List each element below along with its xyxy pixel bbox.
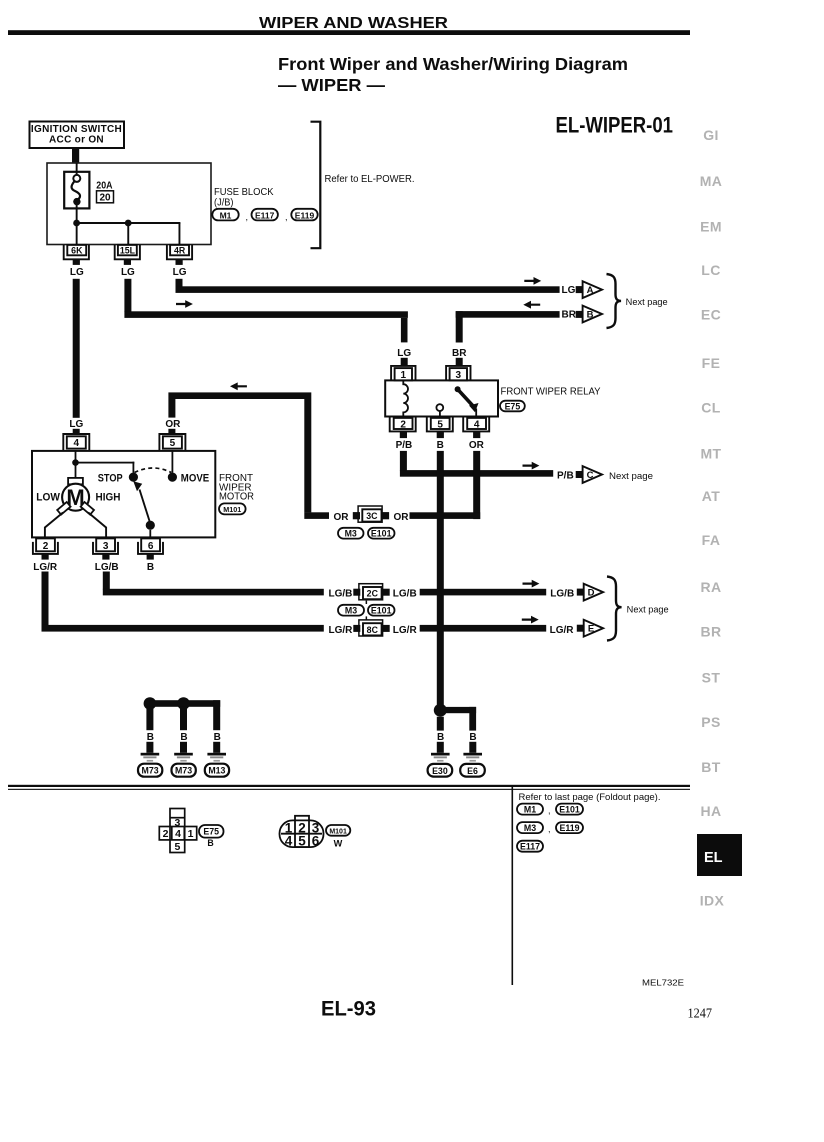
svg-text:LG/R: LG/R <box>393 625 418 636</box>
ground oval M13 <box>205 764 229 777</box>
wire node to stop contact <box>76 462 135 464</box>
wire node to 6K <box>76 226 78 245</box>
ground stub 2 <box>180 742 187 753</box>
ground bus horizontal right <box>440 707 476 713</box>
legend oval E119 <box>556 822 583 833</box>
relay pin5 contact circle <box>436 404 443 411</box>
motor M101 body box <box>32 451 215 538</box>
switch pivot dot <box>146 521 155 530</box>
svg-text:EL-WIPER-01: EL-WIPER-01 <box>556 113 674 138</box>
relay pin 1 connector <box>391 366 415 381</box>
stub 15L <box>124 259 131 265</box>
ground stub 3 <box>213 742 220 753</box>
motor pin 4 connector <box>63 434 89 451</box>
svg-text:FRONT WIPER RELAY: FRONT WIPER RELAY <box>501 386 601 398</box>
square right of 3C <box>382 512 389 519</box>
stub above motor pin5 <box>168 429 175 434</box>
triangle C next page <box>583 466 602 483</box>
svg-text:Refer to EL-POWER.: Refer to EL-POWER. <box>325 174 415 185</box>
square at A <box>576 286 583 293</box>
junction connector 3C <box>358 506 382 522</box>
motor pin 2 connector <box>36 538 55 551</box>
wire LG/R horizontal left <box>42 625 324 632</box>
svg-text:OR: OR <box>469 440 485 451</box>
svg-text:LC: LC <box>701 262 720 278</box>
svg-text:3: 3 <box>174 817 180 829</box>
footer separator line 2 <box>8 789 690 790</box>
wire LG 15L vertical <box>124 279 131 312</box>
fuse number 20 box <box>97 191 114 203</box>
svg-text:MEL732E: MEL732E <box>642 979 684 988</box>
svg-text:2C: 2C <box>367 589 379 599</box>
ground drop E30 <box>437 717 444 731</box>
stub below pin4 <box>473 431 480 438</box>
svg-text:4: 4 <box>175 828 181 840</box>
svg-text:GI: GI <box>703 127 719 143</box>
ground stub E30 <box>437 742 444 753</box>
svg-text:MOVE: MOVE <box>181 473 209 485</box>
svg-text:BR: BR <box>700 624 721 640</box>
wire LG down to relay pin1 <box>401 318 408 343</box>
svg-text:B: B <box>437 732 444 743</box>
stub 4R <box>176 259 183 265</box>
triangle D next page <box>584 584 603 601</box>
svg-text:EC: EC <box>701 307 721 323</box>
legend oval E101 <box>556 804 583 815</box>
square at E <box>577 625 584 632</box>
svg-text:E117: E117 <box>520 842 540 852</box>
svg-text:MOTOR: MOTOR <box>219 491 254 503</box>
section tab EL highlighted box <box>697 834 742 876</box>
svg-text:A: A <box>587 285 594 296</box>
svg-text:M3: M3 <box>345 529 357 539</box>
svg-text:LG: LG <box>70 267 84 278</box>
ground drop 1 <box>146 707 153 730</box>
svg-text:FE: FE <box>702 355 721 371</box>
wire LG/B horizontal right <box>420 589 547 596</box>
relay pin 5 connector <box>427 417 453 432</box>
svg-text:B: B <box>147 732 154 743</box>
fuse element symbol <box>73 175 80 182</box>
svg-text:LG/R: LG/R <box>329 625 354 636</box>
svg-text:6K: 6K <box>71 246 83 256</box>
legend oval E117 <box>517 841 543 852</box>
svg-text:3C: 3C <box>366 511 378 521</box>
dashed link 2C to 8C <box>366 601 368 604</box>
svg-text:,: , <box>548 806 551 816</box>
ground stub E6 <box>469 742 476 753</box>
wire bus to 4R <box>179 223 181 245</box>
svg-text:Next page: Next page <box>609 471 653 481</box>
wire OR junction vertical <box>304 399 311 512</box>
footer vertical divider <box>512 787 514 985</box>
footer separator line 1 <box>8 785 690 787</box>
svg-text:LG/B: LG/B <box>550 589 574 600</box>
earth symbol M73a <box>141 753 160 756</box>
svg-text:,: , <box>285 212 288 222</box>
relay pin 2 connector <box>390 417 416 432</box>
motor connector oval M101 <box>219 503 246 514</box>
svg-text:E101: E101 <box>371 529 392 539</box>
legend oval M3 <box>517 822 543 833</box>
bus wire inside fuse block <box>77 222 181 224</box>
ground node dot 2 <box>177 697 190 710</box>
svg-text:P/B: P/B <box>396 440 413 451</box>
ground oval E30 <box>428 764 453 777</box>
relay switch arm <box>455 386 461 392</box>
svg-text:20: 20 <box>99 193 111 204</box>
wire high brush to pin3 <box>88 513 106 538</box>
relay coil <box>403 380 408 416</box>
relay connector oval E75 <box>500 401 525 412</box>
refer bracket <box>311 122 321 249</box>
wire LG 4R vertical <box>176 279 183 289</box>
node dot inside motor <box>72 459 79 466</box>
wire fuse to node <box>76 205 78 220</box>
square right of 8C <box>383 625 390 632</box>
svg-text:LG/R: LG/R <box>33 562 58 573</box>
ground bus corner vertical <box>213 700 220 730</box>
svg-text:OR: OR <box>165 419 181 430</box>
svg-text:4: 4 <box>285 833 293 848</box>
wire node to 15L <box>127 226 129 245</box>
svg-text:E101: E101 <box>371 606 392 616</box>
triangle E next page <box>584 620 603 637</box>
3C junction stub left <box>304 512 329 519</box>
stub below pin2 <box>400 431 407 438</box>
svg-text:B: B <box>214 732 221 743</box>
stub below pin3 <box>102 554 109 560</box>
svg-text:1247: 1247 <box>688 1006 713 1021</box>
svg-text:2: 2 <box>163 828 169 840</box>
stub above motor pin4 <box>73 429 80 434</box>
MOVE contact dot <box>168 473 177 482</box>
svg-text:D: D <box>588 588 595 599</box>
ground node dot B motor <box>144 697 157 710</box>
ground bus horizontal left <box>150 700 220 707</box>
svg-text:OR: OR <box>334 512 350 523</box>
svg-text:LOW: LOW <box>36 492 60 504</box>
svg-text:HA: HA <box>700 803 721 819</box>
svg-text:B: B <box>587 309 594 320</box>
wire B relay pin5 down to ground <box>437 451 444 707</box>
earth symbol M13 <box>207 753 226 756</box>
svg-text:BT: BT <box>701 759 721 775</box>
svg-text:E30: E30 <box>432 766 448 776</box>
svg-text:E117: E117 <box>255 211 275 221</box>
triangle A next page <box>583 281 602 298</box>
earth symbol M73b <box>174 753 193 756</box>
svg-text:EL-93: EL-93 <box>321 998 376 1021</box>
stub below pin2 <box>42 554 49 560</box>
svg-text:,: , <box>548 824 551 834</box>
svg-text:MA: MA <box>700 173 723 189</box>
dashed throw arc <box>135 468 172 473</box>
svg-text:3: 3 <box>103 541 109 552</box>
ignition switch box <box>30 122 125 149</box>
svg-text:LG/R: LG/R <box>550 625 575 636</box>
svg-text:EM: EM <box>700 219 722 235</box>
square at D <box>577 589 584 596</box>
ovals M3 E101 between 2C 8C <box>338 605 364 616</box>
wire P/B vertical <box>400 451 407 471</box>
square right of 2C <box>383 589 390 596</box>
stub below pin6 <box>147 554 154 560</box>
svg-text:E119: E119 <box>295 211 315 221</box>
ground corner vertical right <box>469 707 476 731</box>
svg-text:OR: OR <box>394 512 410 523</box>
wire into fuse <box>76 163 78 176</box>
junction connector 8C <box>359 620 383 636</box>
relay E75 body <box>385 380 498 416</box>
svg-text:5: 5 <box>174 841 180 853</box>
wire BR horizontal to page B <box>456 311 560 318</box>
wire LG/R horizontal right <box>420 625 547 632</box>
connector 6K <box>64 245 89 259</box>
arrow right on LG A line <box>524 277 541 285</box>
svg-text:P/B: P/B <box>557 471 574 482</box>
square at C <box>576 471 583 478</box>
wire LG 15L horizontal to relay <box>124 311 408 318</box>
switch arm with arrowhead <box>140 490 150 522</box>
stub above pin3 <box>456 358 463 366</box>
stub 6K <box>73 259 80 265</box>
square at B <box>576 311 583 318</box>
svg-text:LG: LG <box>69 419 83 430</box>
svg-text:M1: M1 <box>220 211 232 221</box>
arrow right on LG relay line <box>176 300 193 308</box>
STOP contact dot <box>129 473 138 482</box>
wire ignition to fuse block <box>72 148 79 164</box>
svg-text:IDX: IDX <box>700 893 725 909</box>
stub below pin5 <box>437 431 444 438</box>
arrow left on BR B line <box>523 301 540 309</box>
svg-text:1: 1 <box>401 370 407 381</box>
svg-text:HIGH: HIGH <box>96 492 121 504</box>
earth symbol E30 <box>431 753 450 756</box>
fuse F20 box <box>64 172 89 209</box>
stub above pin1 <box>401 358 408 366</box>
svg-text:E: E <box>588 624 594 635</box>
connector 4R <box>167 245 192 259</box>
wire OR motor pin5 horizontal <box>168 392 311 399</box>
svg-text:RA: RA <box>700 579 721 595</box>
ground oval E6 <box>460 764 485 777</box>
svg-text:MT: MT <box>700 446 721 462</box>
square left of 8C <box>353 625 360 632</box>
oval E101 below 3C <box>368 528 395 539</box>
svg-text:M73: M73 <box>142 766 159 776</box>
svg-text:IGNITION SWITCH: IGNITION SWITCH <box>31 124 122 135</box>
motor pin 5 connector <box>159 434 185 451</box>
svg-text:Next page: Next page <box>627 605 669 615</box>
svg-text:LG: LG <box>562 285 576 296</box>
svg-text:ACC or ON: ACC or ON <box>49 135 104 146</box>
M101 face oval label <box>326 825 350 836</box>
svg-text:B: B <box>147 562 154 573</box>
svg-text:PS: PS <box>701 714 720 730</box>
svg-text:3: 3 <box>456 370 462 381</box>
junction connector 2C <box>359 584 383 600</box>
node dot middle <box>125 220 132 227</box>
wire MOVE to pin5 <box>172 451 174 473</box>
svg-text:BR: BR <box>562 310 577 321</box>
E75 relay connector face <box>159 809 196 853</box>
svg-text:B: B <box>207 838 213 848</box>
wire node to motor <box>75 463 77 478</box>
wire LG 4R horizontal to page A <box>176 286 560 293</box>
svg-text:4R: 4R <box>174 246 186 256</box>
ground node dot B relay <box>434 704 447 717</box>
svg-text:Refer to last page (Foldout pa: Refer to last page (Foldout page). <box>519 792 661 802</box>
svg-text:LG: LG <box>121 267 135 278</box>
svg-text:M3: M3 <box>524 823 536 833</box>
svg-text:M1: M1 <box>524 804 536 814</box>
wire low brush to pin2 <box>45 513 63 538</box>
svg-text:LG/B: LG/B <box>393 589 417 600</box>
svg-text:LG: LG <box>397 348 411 359</box>
svg-text:C: C <box>587 470 594 481</box>
wire LG/B vertical <box>103 572 110 590</box>
svg-text:B: B <box>437 440 444 451</box>
wire P/B horizontal to page C <box>400 470 553 477</box>
svg-text:BR: BR <box>452 348 467 359</box>
svg-text:— WIPER —: — WIPER — <box>278 75 386 95</box>
connector oval M1 <box>212 209 317 221</box>
svg-text:8C: 8C <box>367 625 379 635</box>
square left of 3C <box>353 512 360 519</box>
wire LG/B horizontal left <box>103 589 324 596</box>
node dot left <box>73 220 80 227</box>
svg-text:B: B <box>469 732 476 743</box>
fuse block box <box>47 163 211 245</box>
wire LG/R vertical <box>42 572 49 626</box>
E75 face oval label <box>199 825 224 838</box>
svg-text:6: 6 <box>148 541 154 552</box>
svg-text:ST: ST <box>702 670 721 686</box>
ground oval M73a <box>138 764 162 777</box>
svg-text:LG/B: LG/B <box>329 589 353 600</box>
svg-text:4: 4 <box>474 419 480 430</box>
svg-text:4: 4 <box>74 438 80 449</box>
svg-text:2: 2 <box>43 541 49 552</box>
motor pin 6 connector <box>141 538 160 551</box>
svg-text:E6: E6 <box>467 766 478 776</box>
svg-text:20A: 20A <box>96 179 113 191</box>
svg-text:5: 5 <box>170 438 176 449</box>
wire pivot to pin6 <box>149 530 151 538</box>
arrow right on LG/R line <box>522 616 539 624</box>
wire BR relay pin3 vertical <box>456 311 463 342</box>
svg-text:WIPER AND WASHER: WIPER AND WASHER <box>259 15 448 32</box>
brace next page A B <box>607 274 622 328</box>
svg-text:B: B <box>180 732 187 743</box>
legend oval M1 <box>517 804 543 815</box>
oval M3 below 3C <box>338 528 364 539</box>
wire OR vertical above pin5 <box>168 399 175 418</box>
arrow right on LG/B line <box>523 580 540 588</box>
svg-text:E101: E101 <box>559 804 580 814</box>
connector 15L <box>115 245 140 259</box>
svg-text:M73: M73 <box>175 766 192 776</box>
svg-text:15L: 15L <box>120 246 136 256</box>
square left of 2C <box>353 589 360 596</box>
relay pin 4 connector <box>463 417 489 432</box>
svg-text:6: 6 <box>312 833 320 848</box>
svg-text:LG/B: LG/B <box>95 562 119 573</box>
svg-text:E75: E75 <box>203 827 219 837</box>
arrow right on P/B line <box>523 462 540 470</box>
svg-text:E119: E119 <box>559 823 579 833</box>
arrow left on OR line <box>230 382 247 390</box>
relay pin 3 connector <box>446 366 470 381</box>
brace next page D E <box>607 577 622 641</box>
svg-text:5: 5 <box>298 833 306 848</box>
svg-text:(J/B): (J/B) <box>214 197 234 209</box>
svg-text:M13: M13 <box>208 766 225 776</box>
wire OR relay pin4 down <box>473 451 480 519</box>
svg-text:Front Wiper and Washer/Wiring: Front Wiper and Washer/Wiring Diagram <box>278 54 628 74</box>
motor armature symbol <box>68 478 83 484</box>
svg-text:LG: LG <box>173 267 187 278</box>
wire pin4 to node <box>75 451 77 462</box>
svg-text:CL: CL <box>701 400 721 416</box>
wire LG 6K to motor pin4 <box>73 279 80 418</box>
svg-text:Next page: Next page <box>626 297 668 307</box>
M101 motor connector face <box>280 816 324 847</box>
svg-text:1: 1 <box>188 828 194 840</box>
svg-text:,: , <box>246 212 249 222</box>
ground drop 2 <box>180 707 187 730</box>
svg-text:W: W <box>334 839 343 849</box>
svg-text:5: 5 <box>437 419 443 430</box>
ground stub 1 <box>146 742 153 753</box>
svg-text:2: 2 <box>400 419 406 430</box>
svg-text:STOP: STOP <box>98 473 123 485</box>
3C junction wire to relay pin4 <box>410 512 481 519</box>
svg-text:M3: M3 <box>345 606 357 616</box>
header rule <box>8 30 690 35</box>
svg-text:M101: M101 <box>329 828 347 835</box>
svg-text:AT: AT <box>702 488 720 504</box>
svg-text:EL: EL <box>704 850 723 866</box>
svg-text:FA: FA <box>702 532 721 548</box>
motor pin 3 connector <box>96 538 115 551</box>
ground oval M73b <box>172 764 196 777</box>
svg-text:M101: M101 <box>223 505 241 514</box>
earth symbol E6 <box>463 753 482 756</box>
svg-text:E75: E75 <box>505 401 521 411</box>
triangle B next page <box>583 306 602 323</box>
